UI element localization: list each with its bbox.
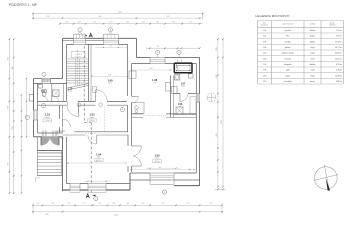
tag circle bottom axis 2: [162, 190, 166, 194]
svg-text:1.80 m²: 1.80 m²: [336, 35, 343, 38]
chimney flue connectors: [177, 59, 179, 63]
svg-text:1,25: 1,25: [209, 203, 212, 205]
top dimension chain 2: [33, 17, 203, 19]
exterior wall: step between bottom blocks: [129, 173, 131, 190]
svg-text:1.09: 1.09: [263, 75, 267, 77]
window dim inside room 1.09: [95, 47, 127, 49]
svg-text:LEGENDA MÍSTNOSTÍ:: LEGENDA MÍSTNOSTÍ:: [256, 14, 291, 18]
window W2 exterior sill: [104, 34, 119, 38]
section line A-A lower: [90, 122, 92, 194]
svg-text:dlažba: dlažba: [45, 117, 50, 119]
svg-text:7: 7: [27, 117, 28, 119]
compass needle south: [326, 178, 330, 191]
exterior wall: right face: [199, 58, 201, 186]
sill under window W7: [88, 190, 106, 192]
right dimension chain inner: [217, 39, 219, 187]
right dimension bottom connector: [215, 188, 226, 190]
svg-text:10.81 m²: 10.81 m²: [335, 57, 343, 60]
interior dimension room 1.09: [92, 75, 128, 77]
section line A-A upper: [83, 36, 85, 122]
svg-text:1,25: 1,25: [78, 22, 81, 24]
svg-text:dlažba: dlažba: [310, 41, 317, 43]
svg-text:pokoj: pokoj: [285, 75, 290, 77]
interior wall: corridor 1.03 / room 1.04: [74, 131, 128, 133]
svg-text:3950: 3950: [8, 57, 10, 61]
terrace door sill outside: [150, 180, 174, 184]
exterior wall: left face of room 1.04 block: [62, 137, 64, 192]
svg-text:5450: 5450: [216, 133, 218, 137]
compass axis NS: [324, 165, 329, 192]
svg-text:1730: 1730: [216, 75, 218, 79]
section line A-A jog: [84, 121, 91, 123]
interior wall: hallway horizontal: [38, 100, 132, 102]
staircase walking line: [77, 50, 79, 85]
radiator room 1.09 left wall: [92, 87, 96, 92]
interior wall: second closet right: [63, 83, 65, 101]
section marker A top: [84, 35, 87, 36]
pilaster outside left wall: [29, 95, 33, 102]
window west wing sill hatch: [42, 79, 51, 83]
tag circle bottom axis 1: [94, 197, 98, 201]
terrace left connector wall: [36, 137, 38, 151]
svg-text:1,25: 1,25: [141, 203, 144, 205]
svg-text:vinyl: vinyl: [311, 58, 315, 60]
compass axis EW: [314, 175, 339, 181]
bottom dimension chain 1: [33, 204, 222, 206]
window W3 kitchen top: [150, 57, 165, 64]
compass circle: [315, 167, 338, 190]
interior wall: stair hall / room 1.09: [88, 44, 90, 101]
door arc: hall 1.10 to corridor: [67, 100, 78, 106]
svg-text:1,25: 1,25: [186, 203, 189, 205]
svg-text:1,50: 1,50: [156, 46, 159, 48]
door arc into 1.04: [88, 135, 96, 144]
svg-text:1,25: 1,25: [36, 203, 39, 205]
interior wall: kitchen,pantry / living room: [132, 113, 144, 115]
svg-text:1,25: 1,25: [162, 203, 165, 205]
svg-text:číslo: číslo: [263, 22, 266, 24]
window W6 left wall room 1.01: [33, 110, 38, 120]
WC sink room 1.02: [38, 84, 42, 88]
svg-text:4250: 4250: [95, 161, 98, 163]
svg-text:vlysy: vlysy: [310, 53, 314, 55]
door arc: room 1.01 entry: [59, 119, 64, 127]
svg-text:1: 1: [43, 105, 44, 107]
svg-text:1.06: 1.06: [263, 58, 267, 60]
svg-text:1,25: 1,25: [82, 203, 85, 205]
exterior wall: top of kitchen block: [137, 57, 200, 59]
door arc: room 1.09 entry: [96, 100, 108, 106]
window west wing top wall: [42, 78, 51, 84]
tag circle left window: [25, 115, 29, 119]
svg-text:3950: 3950: [8, 162, 10, 166]
svg-text:předsíň: předsíň: [285, 30, 291, 32]
interior wall: pantry 1.08 bottom: [174, 114, 197, 116]
interior dimension room 1.04: [68, 162, 126, 164]
svg-text:3950: 3950: [8, 106, 10, 110]
door arc corridor to terrace side: [57, 131, 64, 139]
window W7 bottom wall room 1.04: [88, 183, 106, 191]
svg-text:1.05: 1.05: [154, 154, 160, 158]
kitchen counter bottom left: [132, 103, 145, 114]
svg-text:1,25: 1,25: [126, 203, 129, 205]
svg-text:2.30 m²: 2.30 m²: [336, 69, 343, 72]
svg-text:podlaha: podlaha: [310, 24, 316, 26]
svg-text:kuchyň: kuchyň: [285, 58, 291, 60]
svg-text:1.01: 1.01: [45, 113, 51, 117]
window dim inside room 1.05: [146, 167, 180, 169]
svg-text:1,25: 1,25: [112, 203, 115, 205]
svg-text:4470: 4470: [158, 168, 161, 170]
kitchen stove: [166, 83, 171, 92]
svg-text:1,25: 1,25: [67, 203, 70, 205]
svg-text:1.03: 1.03: [89, 113, 95, 117]
window dim inside room 1.04: [84, 180, 110, 182]
staircase stringers: [75, 59, 77, 86]
svg-text:1,25: 1,25: [99, 203, 102, 205]
svg-text:3900: 3900: [149, 68, 152, 70]
svg-text:vinyl: vinyl: [311, 70, 315, 72]
svg-text:7,40: 7,40: [98, 16, 101, 18]
svg-text:3,60: 3,60: [45, 214, 48, 216]
double door 1.04 to 1.05: [127, 146, 132, 166]
left dimension chain outer: [8, 39, 10, 193]
bath sink: [172, 87, 178, 94]
svg-text:1.03: 1.03: [263, 41, 267, 43]
svg-text:18x167x290: 18x167x290: [75, 56, 82, 58]
chimney block: [174, 63, 192, 73]
svg-text:1.05: 1.05: [263, 53, 267, 55]
svg-text:1.06: 1.06: [152, 78, 158, 82]
door opening dashes 1.03 to 1.04: [86, 132, 97, 134]
exterior wall: bottom of room 1.01: [34, 136, 63, 138]
svg-text:dlažba: dlažba: [310, 64, 317, 66]
top dimension chain total: [33, 13, 203, 15]
staircase break line: [67, 83, 89, 88]
door arc shower room: [53, 96, 58, 101]
svg-text:1600: 1600: [12, 126, 14, 130]
svg-text:1,50: 1,50: [110, 46, 113, 48]
svg-text:vlysy: vlysy: [155, 158, 159, 160]
svg-text:1.07: 1.07: [263, 64, 267, 66]
svg-text:vlysy: vlysy: [310, 47, 314, 49]
svg-text:12.87 m²: 12.87 m²: [335, 40, 343, 43]
svg-text:1,25: 1,25: [110, 22, 113, 24]
left dimension partial chain: [20, 95, 22, 193]
svg-text:1.08: 1.08: [263, 70, 267, 72]
tag circle room 1.01 door: [41, 104, 45, 108]
interior dimension kitchen: [132, 69, 171, 71]
window W4 right wall pantry: [196, 94, 201, 103]
interior wall: kitchen / bath vertical: [170, 75, 172, 117]
shower room square: [53, 90, 59, 97]
svg-text:spíž: spíž: [286, 70, 290, 72]
left dimension chain inner: [13, 39, 15, 193]
svg-text:1880: 1880: [12, 66, 14, 70]
legend table grid: [257, 21, 259, 85]
svg-text:6: 6: [110, 30, 111, 32]
ceiling change dashed line corridor: [104, 106, 106, 131]
svg-text:dlažba: dlažba: [310, 36, 317, 38]
svg-text:6.25 m²: 6.25 m²: [336, 63, 343, 66]
svg-text:PŮDORYS 1. NP.: PŮDORYS 1. NP.: [9, 2, 38, 7]
interior wall: room 1.01 / 1.03: [59, 105, 61, 119]
interior wall: stair hall left: [66, 79, 68, 102]
interior wall: between WC rooms: [51, 83, 53, 101]
svg-text:1,25: 1,25: [65, 22, 68, 24]
door arc: pantry 1.08: [180, 94, 188, 102]
axis bubble kitchen window right: [177, 50, 181, 54]
window W8 bottom small room 1.04: [70, 183, 80, 191]
svg-text:1.04: 1.04: [263, 47, 267, 49]
bathroom toilet: [175, 74, 180, 80]
svg-text:3600: 3600: [108, 74, 111, 76]
interior wall: bath 1.07 / pantry 1.08: [174, 93, 181, 95]
tag circle west wing window: [42, 72, 46, 76]
pantry shelf: [190, 97, 196, 114]
svg-text:4: 4: [44, 74, 45, 76]
svg-text:1.09: 1.09: [107, 78, 113, 82]
tag circle hallway door: [77, 103, 81, 107]
svg-text:1,25: 1,25: [142, 22, 145, 24]
svg-text:beton: beton: [310, 80, 315, 83]
tag circle corridor: [120, 107, 124, 111]
bathroom bidet: [189, 74, 193, 78]
svg-text:1.08: 1.08: [178, 104, 183, 106]
svg-text:8: 8: [179, 52, 180, 54]
interior wall: corridor / room 1.06 vertical: [127, 105, 129, 132]
svg-text:1,25: 1,25: [126, 22, 129, 24]
svg-text:1.02: 1.02: [263, 36, 267, 38]
exterior wall: top of stair block: [63, 37, 137, 39]
svg-text:1,25: 1,25: [172, 22, 175, 24]
svg-text:vlysy: vlysy: [97, 157, 101, 159]
svg-text:1.04: 1.04: [96, 153, 102, 157]
top sub dimension over kitchen window: [146, 47, 200, 49]
window W1 stair block top: [74, 38, 86, 45]
left small chain near terrace: [26, 79, 28, 137]
svg-text:1,25: 1,25: [189, 22, 192, 24]
svg-text:1,25: 1,25: [51, 203, 54, 205]
svg-text:jídelna: jídelna: [284, 47, 292, 49]
svg-text:1.01: 1.01: [263, 30, 267, 32]
svg-text:schodiště: schodiště: [284, 80, 292, 83]
svg-text:dlažba: dlažba: [90, 117, 95, 119]
svg-text:1.10: 1.10: [68, 89, 73, 91]
tag circle hallway opening: [99, 103, 103, 107]
septic manhole outside right wall: [207, 93, 216, 102]
svg-text:17,10: 17,10: [114, 214, 119, 216]
section marker A bottom: [92, 195, 95, 197]
terrace door bottom living room: [150, 172, 174, 180]
svg-text:23.20 m²: 23.20 m²: [335, 52, 343, 55]
interior dimension room 1.05: [131, 169, 194, 171]
door gap corridor to kitchen: [127, 96, 133, 103]
kitchen fridge: [129, 71, 136, 78]
exterior wall: step on right of stair block: [136, 38, 138, 57]
interior wall: room 1.09 / kitchen: [127, 64, 129, 102]
svg-text:chodba: chodba: [285, 41, 292, 43]
exterior wall: bottom of room 1.04 block: [63, 189, 131, 191]
french doors room 1.01 to terrace: [41, 135, 59, 137]
axis bubble kitchen window left: [155, 50, 159, 54]
svg-text:19.77 m²: 19.77 m²: [335, 46, 343, 49]
right dimension chain outer: [222, 39, 224, 187]
window W2 room 1.09 top: [104, 38, 119, 45]
paving edge below steps: [35, 177, 39, 179]
WC toilet room 1.02: [42, 90, 46, 93]
svg-text:3: 3: [122, 109, 123, 111]
svg-text:1.10: 1.10: [263, 81, 267, 83]
svg-text:spíž: spíž: [179, 106, 182, 108]
door arc WC: [42, 95, 48, 101]
svg-text:9: 9: [164, 192, 165, 194]
bottom dimension chain total: [33, 211, 222, 213]
terrace steps outside: [37, 155, 61, 157]
svg-text:1880: 1880: [216, 47, 218, 51]
svg-text:2,95: 2,95: [46, 16, 49, 18]
svg-text:vlysy: vlysy: [108, 83, 112, 85]
svg-text:1,25: 1,25: [156, 22, 159, 24]
exterior wall: west wing top: [34, 78, 63, 80]
svg-text:15.09 m²: 15.09 m²: [335, 74, 343, 77]
opening dashes kitchen to living room: [143, 115, 166, 117]
svg-text:obývací pokoj: obývací pokoj: [282, 53, 294, 55]
interior wall: room 1.04 / 1.05 vertical: [127, 135, 129, 146]
exterior wall: bottom of living room block: [130, 172, 196, 174]
svg-text:9.89 m²: 9.89 m²: [336, 80, 343, 83]
svg-text:7.05 m²: 7.05 m²: [336, 29, 343, 32]
axis bubble top window 1: [78, 28, 82, 32]
svg-text:5: 5: [80, 30, 81, 32]
exterior wall: west wing left face: [33, 79, 35, 137]
sill under window W8: [70, 190, 80, 192]
washing machine room 1.08: [176, 107, 183, 114]
window W1 exterior sill: [74, 34, 86, 38]
svg-text:1,25: 1,25: [93, 22, 96, 24]
svg-text:12930: 12930: [221, 120, 223, 124]
svg-text:dlažba: dlažba: [310, 30, 317, 32]
svg-text:plocha: plocha: [330, 22, 335, 24]
svg-text:6,31: 6,31: [166, 16, 169, 18]
terrace slab edge: [37, 149, 61, 151]
top dimension chain 3: [60, 23, 203, 25]
svg-text:vlysy: vlysy: [310, 75, 314, 77]
staircase treads: [67, 58, 89, 60]
svg-text:dlažba: dlažba: [181, 86, 185, 88]
exterior wall: upper-left block left face: [62, 38, 64, 78]
staircase label box: [72, 52, 86, 58]
svg-text:koupelna: koupelna: [284, 64, 293, 66]
svg-text:17,10: 17,10: [118, 12, 122, 14]
svg-text:1.07: 1.07: [181, 83, 186, 85]
axis bubble top window 2: [108, 28, 112, 32]
svg-text:4: 4: [157, 52, 158, 54]
svg-text:2: 2: [95, 198, 96, 200]
